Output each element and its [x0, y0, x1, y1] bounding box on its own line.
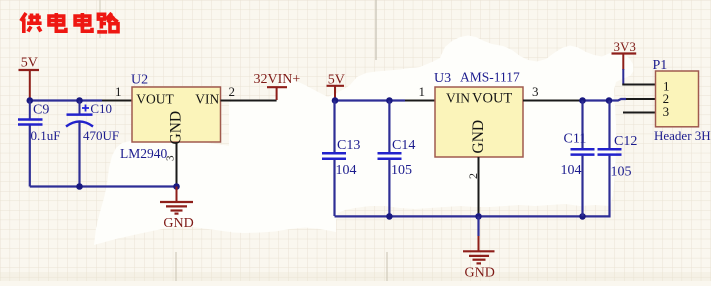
power port 3V3	[612, 39, 637, 84]
svg-text:3: 3	[663, 104, 670, 119]
wire U3 out net	[580, 99, 626, 101]
svg-text:2: 2	[229, 84, 236, 99]
pin 3 of U3	[523, 100, 580, 102]
svg-text:2: 2	[466, 173, 480, 179]
svg-text:C14: C14	[392, 138, 415, 153]
svg-text:GND: GND	[168, 111, 185, 145]
connector P1 body	[653, 58, 711, 143]
wire middle top net	[335, 99, 405, 101]
svg-text:C11: C11	[564, 132, 587, 147]
wire bottom middle rail	[335, 215, 610, 217]
node junction gnd middle	[475, 213, 482, 220]
node junction C12 top	[606, 97, 613, 104]
node junction at C10 top	[76, 97, 83, 104]
node junction at 5V	[27, 97, 34, 104]
svg-text:VOUT: VOUT	[136, 91, 174, 106]
capacitor C11	[561, 101, 595, 217]
svg-text:GND: GND	[163, 216, 193, 231]
svg-text:GND: GND	[470, 120, 487, 154]
node junction gnd rail	[173, 183, 180, 190]
svg-text:AMS-1117: AMS-1117	[460, 70, 520, 85]
svg-text:VIN: VIN	[195, 91, 219, 106]
svg-text:U2: U2	[131, 73, 148, 88]
svg-text:C10: C10	[90, 101, 112, 116]
node junction C14 bottom	[386, 213, 393, 220]
svg-text:P1: P1	[653, 58, 668, 73]
svg-text:5V: 5V	[21, 56, 38, 71]
node junction C14 top	[386, 97, 393, 104]
power port 5V (left)	[19, 56, 40, 101]
ground GND (middle)	[463, 216, 495, 280]
svg-text:Header 3H: Header 3H	[654, 128, 711, 143]
white erased blob bottom-left	[94, 141, 230, 246]
regulator U3 body	[434, 70, 523, 158]
wire bottom-left rail	[30, 185, 177, 187]
svg-text:LM2940: LM2940	[120, 146, 168, 161]
pin 1 of P1	[622, 84, 655, 86]
svg-text:C13: C13	[337, 138, 360, 153]
ground GND (left)	[160, 187, 194, 231]
capacitor C9	[18, 101, 60, 187]
svg-text:U3: U3	[434, 71, 451, 86]
svg-text:C9: C9	[33, 103, 49, 118]
svg-text:VIN: VIN	[446, 91, 470, 106]
node junction C11 bottom	[579, 213, 586, 220]
pin 3 of U2	[176, 142, 178, 187]
regulator U2 body	[120, 73, 221, 162]
svg-text:3V3: 3V3	[614, 39, 636, 54]
power port 32VIN+	[254, 72, 301, 100]
pin 2 of U2	[221, 100, 277, 102]
svg-text:C12: C12	[614, 134, 637, 149]
svg-text:3: 3	[532, 84, 539, 99]
svg-text:32VIN+: 32VIN+	[254, 72, 301, 87]
svg-text:3: 3	[165, 155, 177, 161]
title 供电电路	[21, 13, 118, 33]
svg-text:0.1uF: 0.1uF	[31, 128, 61, 143]
pin 3 of P1	[623, 112, 656, 114]
svg-text:GND: GND	[465, 266, 495, 281]
node junction C11 top	[579, 97, 586, 104]
svg-text:104: 104	[336, 163, 357, 178]
svg-text:105: 105	[391, 163, 412, 178]
capacitor C13	[322, 101, 360, 217]
svg-text:1: 1	[115, 84, 122, 99]
pin 1 of U3	[405, 100, 435, 102]
wire top-left net	[30, 99, 102, 101]
node junction 5V middle	[332, 97, 339, 104]
svg-text:VOUT: VOUT	[472, 91, 512, 107]
capacitor C14	[378, 101, 416, 217]
svg-text:105: 105	[611, 165, 632, 180]
white erased blob big diagonal band + column	[229, 36, 634, 234]
pin 1 of U2	[102, 100, 132, 102]
svg-text:1: 1	[419, 84, 426, 99]
power port 5V (middle)	[327, 73, 345, 101]
pin 2 of P1	[626, 98, 656, 100]
pin 2 of U3	[478, 157, 480, 216]
node junction C10 bottom	[76, 183, 83, 190]
svg-text:470UF: 470UF	[83, 128, 119, 143]
capacitor C12	[598, 101, 638, 218]
svg-text:104: 104	[561, 163, 582, 178]
capacitor C10 (polarized)	[66, 101, 119, 187]
